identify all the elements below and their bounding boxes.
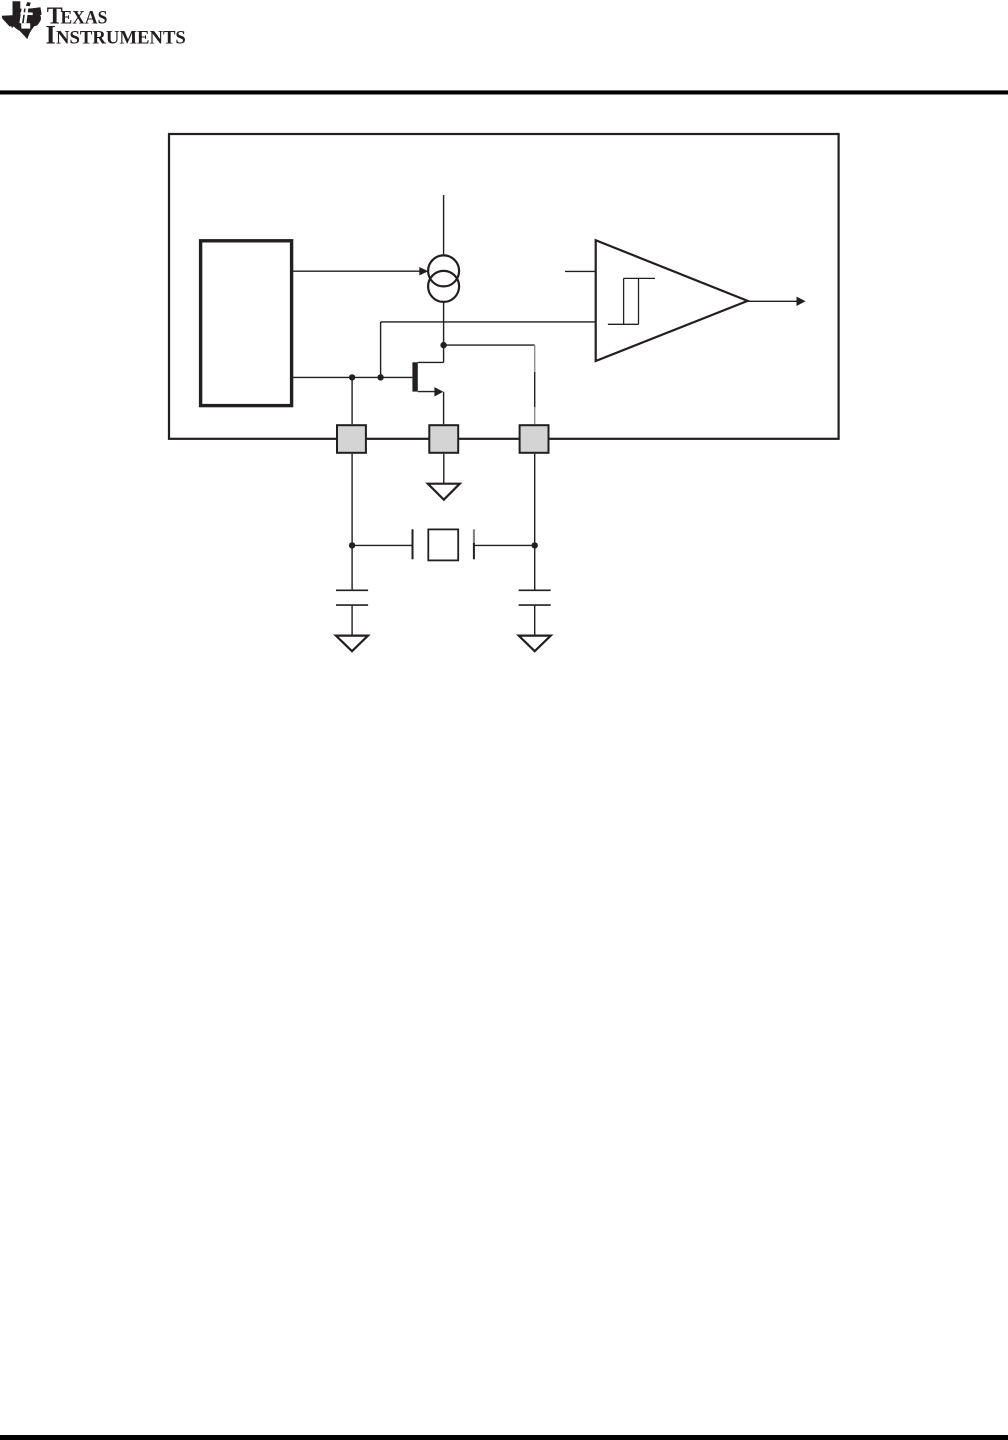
- svg-text:NSTRUMENTS: NSTRUMENTS: [56, 27, 186, 48]
- pad XIN: [337, 425, 366, 453]
- crystal Y1: [412, 529, 414, 559]
- Texas Instruments logo text: [46, 3, 186, 49]
- IC boundary box: [169, 134, 839, 439]
- footer rule: [0, 1435, 1008, 1440]
- svg-text:I: I: [46, 19, 56, 49]
- capacitor C2: [534, 545, 536, 590]
- capacitor C1: [351, 545, 353, 590]
- wire: comparator output: [748, 300, 798, 302]
- wire: current source to transistor drain: [443, 302, 445, 363]
- hysteresis symbol: [608, 278, 655, 324]
- wire: crystal to right node: [474, 544, 535, 546]
- node: drain junction: [440, 342, 446, 348]
- ground: C1: [336, 636, 368, 652]
- node: gate junction: [377, 374, 383, 380]
- pad XOUT: [520, 425, 549, 453]
- ground: internal: [428, 484, 460, 500]
- current source I1: [428, 255, 459, 286]
- svg-text:EXAS: EXAS: [61, 7, 108, 28]
- wire: XOUT pad down: [534, 454, 536, 546]
- node: crystal left: [349, 542, 355, 548]
- wire: drain node to XOUT branch: [444, 344, 535, 346]
- oscillator control block: [201, 241, 292, 406]
- header rule: [0, 90, 1008, 94]
- wire: supply into current source: [443, 195, 445, 256]
- transistor Q1: [412, 362, 417, 391]
- node: crystal right: [532, 542, 538, 548]
- wire: XIN junction to pad: [351, 377, 353, 424]
- pad GND: [429, 425, 458, 453]
- wire: comparator reference input stub: [565, 270, 596, 272]
- wire: bias control to current source: [292, 270, 420, 272]
- ground: C2: [519, 636, 551, 652]
- node: XIN junction: [349, 374, 355, 380]
- wire: GND pad to ground: [443, 454, 445, 484]
- wire: XIN pad down: [351, 454, 353, 546]
- wire: gate drive from control block: [292, 376, 413, 378]
- Texas Instruments logo bug: [2, 1, 42, 39]
- wire: gate node to comparator input: [380, 322, 382, 378]
- wire: node to crystal: [352, 544, 412, 546]
- comparator U1: [596, 240, 748, 361]
